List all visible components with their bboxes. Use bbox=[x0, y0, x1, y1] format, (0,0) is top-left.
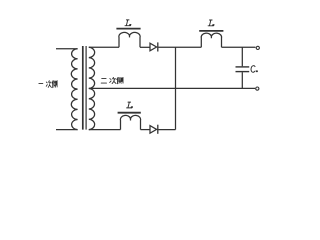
label Lb bbox=[208, 20, 214, 26]
transformer T1 primary winding bbox=[71, 49, 77, 130]
inductor La core bar bbox=[116, 28, 140, 30]
inductor Lb winding bbox=[201, 33, 221, 47]
capacitor Cb bottom plate bbox=[236, 71, 250, 73]
label 一次側: 側 bbox=[52, 81, 57, 88]
transformer T1 primary bottom lead bbox=[56, 129, 78, 131]
diode D1 cathode bar bbox=[157, 42, 159, 51]
wire: secondary top lead to La bbox=[89, 46, 119, 48]
transformer T1 primary top lead bbox=[56, 48, 78, 50]
wire: D1 to Lb (top rail through node) bbox=[158, 46, 201, 48]
inductor Lc core bar bbox=[118, 112, 141, 114]
capacitor Cb top plate bbox=[236, 66, 250, 68]
transformer T1 core line left bbox=[82, 46, 84, 130]
label 二次側: 次 bbox=[110, 77, 116, 83]
label La bbox=[125, 20, 131, 26]
label 一次側 (primary side): 一 bbox=[39, 83, 43, 85]
label Cb bbox=[251, 66, 258, 73]
transformer T1 secondary winding bbox=[89, 47, 95, 129]
label 二次側 (secondary side): 二 bbox=[101, 78, 106, 83]
wire: secondary bottom lead to Lc bbox=[89, 129, 121, 131]
diode D2 cathode bar bbox=[157, 125, 159, 134]
label Lc bbox=[127, 102, 133, 108]
label 二次側: 側 bbox=[117, 77, 123, 83]
inductor Lb core bar bbox=[199, 30, 223, 32]
wire: La to diode D1 bbox=[140, 46, 150, 48]
wire: junction vertical (diode outputs common) bbox=[175, 47, 177, 129]
wire: D2 to junction vertical bbox=[158, 129, 175, 131]
wire: capacitor top connection bbox=[241, 47, 243, 66]
diode D1 triangle bbox=[150, 43, 157, 51]
inductor Lc winding bbox=[120, 115, 140, 129]
inductor La winding bbox=[119, 32, 140, 47]
terminal top-right bbox=[256, 46, 259, 49]
wire: Lc to diode D2 bbox=[141, 129, 151, 131]
wire: center tap middle rail bbox=[89, 87, 255, 89]
label 一次側: 次 bbox=[46, 81, 51, 88]
wire: Lb to top output terminal bbox=[222, 46, 256, 48]
transformer T1 core line right bbox=[85, 46, 87, 130]
terminal bottom-right bbox=[256, 87, 259, 90]
diode D2 triangle bbox=[150, 126, 157, 134]
wire: capacitor bottom connection bbox=[241, 72, 243, 88]
